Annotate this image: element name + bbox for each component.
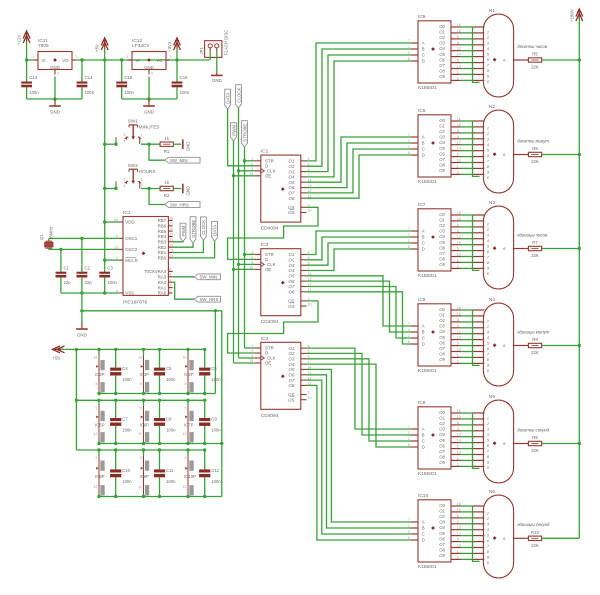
svg-text:O1: O1 — [439, 218, 445, 223]
svg-text:2: 2 — [408, 51, 410, 55]
svg-text:12: 12 — [183, 485, 187, 489]
svg-text:K155ID1: K155ID1 — [418, 471, 437, 477]
svg-text:PIC16F876: PIC16F876 — [123, 300, 148, 306]
svg-text:+12V: +12V — [17, 35, 22, 45]
svg-text:STROBE: STROBE — [191, 220, 196, 238]
svg-text:Q1: Q1 — [39, 234, 44, 240]
svg-text:OS: OS — [288, 210, 294, 215]
svg-text:B: B — [422, 330, 425, 335]
svg-text:C3: C3 — [107, 265, 113, 270]
svg-text:O2: O2 — [439, 223, 445, 228]
svg-text:VI: VI — [42, 58, 46, 63]
svg-text:2: 2 — [141, 140, 143, 144]
svg-text:OSC1: OSC1 — [125, 236, 138, 241]
svg-text:N2: N2 — [489, 104, 495, 110]
svg-text:12: 12 — [138, 432, 142, 436]
svg-text:VO: VO — [62, 58, 69, 63]
svg-text:C5: C5 — [166, 366, 172, 371]
svg-text:R5: R5 — [532, 52, 538, 57]
svg-text:N5: N5 — [489, 394, 495, 400]
svg-text:15: 15 — [249, 172, 253, 176]
svg-text:IC4: IC4 — [261, 336, 269, 342]
svg-text:A: A — [422, 427, 425, 432]
svg-text:O2: O2 — [289, 164, 295, 169]
svg-text:O5: O5 — [289, 367, 295, 372]
svg-text:8: 8 — [185, 382, 187, 386]
svg-text:O0: O0 — [439, 503, 445, 508]
svg-text:RB1: RB1 — [158, 250, 167, 255]
svg-text:O5: O5 — [289, 274, 295, 279]
svg-text:C13: C13 — [29, 75, 37, 80]
svg-text:7: 7 — [408, 322, 410, 326]
svg-text:C9: C9 — [211, 417, 217, 422]
svg-text:C15: C15 — [124, 75, 132, 80]
svg-text:IC1: IC1 — [123, 210, 131, 216]
svg-text:N6: N6 — [489, 489, 495, 495]
svg-text:O9: O9 — [439, 357, 445, 362]
svg-text:RB6: RB6 — [158, 224, 167, 229]
svg-text:O8: O8 — [439, 69, 445, 74]
svg-text:CLOCK: CLOCK — [201, 220, 206, 235]
svg-text:O4: O4 — [289, 362, 295, 367]
svg-text:1: 1 — [487, 126, 489, 131]
svg-text:единицы секунд: единицы секунд — [517, 522, 550, 527]
svg-text:IC3: IC3 — [261, 242, 269, 248]
svg-text:O6: O6 — [439, 443, 445, 448]
svg-text:O2: O2 — [439, 35, 445, 40]
svg-text:DATA: DATA — [212, 225, 217, 236]
svg-text:1: 1 — [408, 524, 410, 528]
svg-text:RB4: RB4 — [158, 234, 167, 239]
svg-text:N1: N1 — [489, 8, 495, 14]
svg-text:K155ID1: K155ID1 — [418, 179, 437, 185]
svg-text:O1: O1 — [289, 159, 295, 164]
svg-text:O0: O0 — [439, 212, 445, 217]
svg-text:N3: N3 — [489, 200, 495, 206]
svg-text:VDD: VDD — [125, 220, 134, 225]
svg-text:O6: O6 — [439, 536, 445, 541]
svg-text:O7: O7 — [289, 284, 295, 289]
svg-text:1: 1 — [408, 328, 410, 332]
svg-text:3: 3 — [251, 167, 253, 171]
svg-text:RA3: RA3 — [158, 275, 167, 280]
svg-text:22K: 22K — [531, 253, 539, 258]
svg-text:IC3P: IC3P — [140, 372, 150, 377]
svg-text:1: 1 — [251, 344, 253, 348]
svg-text:RB5: RB5 — [158, 229, 167, 234]
svg-text:1: 1 — [487, 222, 489, 227]
svg-text:6: 6 — [408, 443, 410, 447]
svg-text:100n: 100n — [211, 479, 221, 484]
svg-text:7: 7 — [408, 227, 410, 231]
svg-text:1k: 1k — [164, 180, 169, 185]
svg-text:VI: VI — [136, 58, 140, 63]
svg-text:D: D — [422, 247, 425, 252]
svg-text:LF33CV: LF33CV — [132, 43, 150, 49]
svg-text:100n: 100n — [124, 90, 134, 95]
svg-text:O5: O5 — [439, 52, 445, 57]
svg-text:O8: O8 — [439, 455, 445, 460]
svg-text:O4: O4 — [439, 234, 445, 239]
svg-text:PWM: PWM — [231, 125, 236, 136]
svg-text:100n: 100n — [122, 377, 132, 382]
svg-text:O2: O2 — [439, 318, 445, 323]
svg-text:IC5: IC5 — [418, 14, 426, 20]
svg-text:VSS: VSS — [125, 291, 134, 296]
svg-text:O6: O6 — [439, 151, 445, 156]
svg-text:5: 5 — [96, 456, 98, 460]
svg-text:O3: O3 — [289, 263, 295, 268]
svg-text:9: 9 — [308, 391, 310, 395]
svg-text:2: 2 — [141, 184, 143, 188]
svg-text:2: 2 — [251, 162, 253, 166]
svg-text:IC8: IC8 — [418, 297, 426, 303]
svg-text:OS: OS — [288, 304, 294, 309]
svg-text:O5: O5 — [439, 335, 445, 340]
svg-text:100n: 100n — [211, 377, 221, 382]
svg-text:O6: O6 — [289, 279, 295, 284]
svg-text:GND: GND — [77, 332, 87, 337]
svg-text:O7: O7 — [439, 63, 445, 68]
svg-text:O7: O7 — [439, 542, 445, 547]
svg-text:6: 6 — [408, 536, 410, 540]
svg-text:O3: O3 — [289, 357, 295, 362]
svg-text:5: 5 — [96, 407, 98, 411]
svg-text:MCLR: MCLR — [125, 258, 137, 263]
svg-text:O2: O2 — [439, 129, 445, 134]
svg-text:RA1: RA1 — [158, 285, 167, 290]
svg-text:2: 2 — [408, 530, 410, 534]
svg-text:8: 8 — [96, 382, 98, 386]
svg-text:RB0: RB0 — [158, 256, 167, 261]
svg-text:O2: O2 — [439, 514, 445, 519]
svg-text:4: 4 — [124, 140, 126, 144]
svg-text:C: C — [422, 532, 425, 537]
svg-text:3: 3 — [169, 284, 171, 288]
svg-text:O7: O7 — [439, 251, 445, 256]
svg-text:CD4094: CD4094 — [261, 413, 279, 419]
svg-text:O1: O1 — [439, 509, 445, 514]
svg-text:C: C — [422, 439, 425, 444]
svg-text:C11: C11 — [166, 468, 174, 473]
svg-text:O1: O1 — [439, 30, 445, 35]
svg-text:O7: O7 — [289, 191, 295, 196]
svg-text:O1: O1 — [439, 124, 445, 129]
svg-text:+180V: +180V — [570, 9, 575, 22]
svg-text:27: 27 — [169, 222, 173, 226]
svg-text:4: 4 — [169, 278, 171, 282]
svg-text:3: 3 — [251, 354, 253, 358]
svg-text:12: 12 — [183, 432, 187, 436]
svg-text:O5: O5 — [439, 240, 445, 245]
svg-text:A: A — [422, 324, 425, 329]
svg-text:5: 5 — [140, 456, 142, 460]
svg-text:O4: O4 — [439, 525, 445, 530]
svg-text:IC6: IC6 — [418, 108, 426, 114]
svg-text:1k: 1k — [164, 136, 169, 141]
svg-text:O3: O3 — [439, 41, 445, 46]
svg-text:GND: GND — [212, 78, 222, 83]
svg-text:O8: O8 — [439, 257, 445, 262]
svg-text:IC5P: IC5P — [95, 422, 105, 427]
svg-text:3: 3 — [251, 261, 253, 265]
svg-text:16: 16 — [183, 356, 187, 360]
svg-text:O5: O5 — [439, 531, 445, 536]
svg-text:3: 3 — [124, 133, 126, 137]
svg-text:7: 7 — [408, 425, 410, 429]
svg-text:PWM: PWM — [181, 225, 186, 236]
svg-text:O4: O4 — [439, 432, 445, 437]
svg-text:5: 5 — [140, 407, 142, 411]
svg-text:RB7: RB7 — [158, 218, 167, 223]
svg-text:2: 2 — [57, 72, 59, 76]
svg-text:RA0: RA0 — [158, 291, 167, 296]
svg-text:100n: 100n — [122, 428, 132, 433]
svg-text:2: 2 — [408, 145, 410, 149]
svg-text:единицы часов: единицы часов — [517, 232, 548, 237]
svg-text:HOURS: HOURS — [139, 169, 156, 174]
svg-text:1: 1 — [141, 177, 143, 181]
svg-text:STROBE: STROBE — [242, 124, 247, 142]
svg-text:15: 15 — [249, 266, 253, 270]
svg-text:O8: O8 — [439, 548, 445, 553]
svg-text:1: 1 — [408, 431, 410, 435]
svg-text:IC9: IC9 — [418, 400, 426, 406]
svg-text:IC7: IC7 — [418, 202, 426, 208]
svg-text:VO: VO — [156, 58, 163, 63]
svg-text:D: D — [422, 153, 425, 158]
svg-text:O4: O4 — [289, 175, 295, 180]
svg-text:O2: O2 — [439, 421, 445, 426]
svg-text:2: 2 — [151, 72, 153, 76]
svg-text:7: 7 — [408, 518, 410, 522]
svg-text:K155ID1: K155ID1 — [418, 368, 437, 374]
svg-text:A: A — [422, 520, 425, 525]
svg-text:2: 2 — [408, 437, 410, 441]
svg-text:O2: O2 — [289, 258, 295, 263]
svg-text:C12: C12 — [211, 468, 219, 473]
svg-text:GND: GND — [144, 109, 154, 114]
svg-text:O3: O3 — [439, 229, 445, 234]
svg-text:+5V: +5V — [53, 356, 61, 361]
svg-text:C6: C6 — [211, 366, 217, 371]
svg-text:R6: R6 — [532, 146, 538, 151]
svg-text:O4: O4 — [439, 329, 445, 334]
svg-text:CD4094: CD4094 — [261, 226, 279, 232]
svg-text:7805: 7805 — [38, 43, 49, 49]
svg-text:O9: O9 — [439, 262, 445, 267]
svg-text:O0: O0 — [439, 410, 445, 415]
svg-text:R1: R1 — [164, 149, 170, 154]
svg-text:SW_MIN: SW_MIN — [170, 158, 188, 163]
svg-text:C: C — [422, 241, 425, 246]
svg-text:O7: O7 — [439, 157, 445, 162]
svg-text:1: 1 — [408, 233, 410, 237]
svg-text:100n: 100n — [107, 280, 117, 285]
svg-text:GND: GND — [144, 65, 154, 70]
svg-text:O6: O6 — [439, 245, 445, 250]
svg-text:1: 1 — [408, 139, 410, 143]
svg-text:B: B — [422, 526, 425, 531]
svg-text:IC2: IC2 — [261, 149, 269, 155]
svg-text:десятки часов: десятки часов — [517, 44, 548, 49]
svg-text:D: D — [422, 59, 425, 64]
svg-text:K155ID1: K155ID1 — [418, 564, 437, 570]
svg-text:O6: O6 — [439, 57, 445, 62]
svg-text:O9: O9 — [439, 168, 445, 173]
svg-text:SW2: SW2 — [128, 163, 138, 168]
svg-text:1: 1 — [251, 157, 253, 161]
svg-text:O7: O7 — [439, 346, 445, 351]
svg-text:GND: GND — [185, 142, 190, 152]
svg-text:RA2: RA2 — [158, 280, 167, 285]
svg-text:B: B — [422, 433, 425, 438]
svg-text:C: C — [422, 336, 425, 341]
svg-text:1: 1 — [251, 251, 253, 255]
svg-text:100n: 100n — [122, 479, 132, 484]
svg-text:3: 3 — [170, 55, 172, 59]
svg-text:22p: 22p — [85, 280, 93, 285]
svg-text:RB2: RB2 — [158, 245, 167, 250]
svg-text:C7: C7 — [122, 417, 128, 422]
svg-text:OE: OE — [265, 174, 271, 179]
svg-text:O6: O6 — [439, 340, 445, 345]
svg-text:SW_HRS: SW_HRS — [200, 297, 219, 302]
svg-text:R10: R10 — [531, 530, 540, 535]
svg-text:IC4P: IC4P — [184, 372, 194, 377]
svg-text:GND: GND — [50, 65, 60, 70]
svg-text:D: D — [422, 445, 425, 450]
svg-text:R8: R8 — [532, 337, 538, 342]
svg-text:O8: O8 — [289, 290, 295, 295]
svg-text:C14: C14 — [85, 75, 93, 80]
svg-text:10: 10 — [308, 302, 312, 306]
svg-text:100n: 100n — [166, 377, 176, 382]
svg-text:O1: O1 — [439, 416, 445, 421]
svg-text:O1: O1 — [439, 313, 445, 318]
svg-text:O8: O8 — [289, 383, 295, 388]
svg-text:K155ID1: K155ID1 — [418, 273, 437, 279]
svg-text:RB3: RB3 — [158, 240, 167, 245]
svg-text:22K: 22K — [531, 448, 539, 453]
svg-text:16: 16 — [138, 356, 142, 360]
svg-text:O9: O9 — [439, 460, 445, 465]
svg-text:100n: 100n — [180, 90, 190, 95]
svg-text:O0: O0 — [439, 307, 445, 312]
svg-text:3: 3 — [76, 55, 78, 59]
svg-text:1: 1 — [487, 30, 489, 35]
svg-text:6: 6 — [408, 245, 410, 249]
svg-text:O0: O0 — [439, 118, 445, 123]
svg-text:1: 1 — [487, 319, 489, 324]
svg-text:6: 6 — [408, 57, 410, 61]
svg-text:22K: 22K — [531, 543, 539, 548]
svg-text:2: 2 — [408, 334, 410, 338]
svg-text:+3V3: +3V3 — [167, 41, 172, 52]
svg-text:O6: O6 — [289, 185, 295, 190]
svg-text:O9: O9 — [439, 74, 445, 79]
svg-text:O8: O8 — [439, 352, 445, 357]
svg-text:C10: C10 — [122, 468, 130, 473]
svg-text:26: 26 — [169, 227, 173, 231]
svg-text:3: 3 — [124, 177, 126, 181]
svg-text:K155ID1: K155ID1 — [418, 85, 437, 91]
svg-text:4: 4 — [124, 184, 126, 188]
svg-text:5: 5 — [185, 456, 187, 460]
svg-text:T0CKI/RA4: T0CKI/RA4 — [144, 269, 167, 274]
svg-text:1: 1 — [33, 55, 35, 59]
svg-text:100n: 100n — [166, 479, 176, 484]
svg-text:SW_HRS: SW_HRS — [170, 202, 189, 207]
svg-text:B: B — [422, 235, 425, 240]
svg-text:100n: 100n — [85, 90, 95, 95]
svg-text:GND: GND — [50, 109, 60, 114]
svg-text:22K: 22K — [531, 159, 539, 164]
svg-text:IC2P: IC2P — [95, 372, 105, 377]
svg-text:5: 5 — [185, 407, 187, 411]
svg-text:7: 7 — [408, 133, 410, 137]
svg-text:C: C — [422, 53, 425, 58]
svg-text:IC10: IC10 — [418, 493, 428, 499]
svg-text:B: B — [422, 47, 425, 52]
svg-text:IC10P: IC10P — [184, 474, 196, 479]
svg-text:O3: O3 — [439, 135, 445, 140]
svg-text:1: 1 — [487, 416, 489, 421]
svg-text:A: A — [422, 41, 425, 46]
svg-text:десятки секунд: десятки секунд — [517, 427, 549, 432]
svg-text:1: 1 — [408, 45, 410, 49]
svg-text:SW1: SW1 — [128, 119, 138, 124]
svg-text:IC9P: IC9P — [140, 474, 150, 479]
svg-text:100n: 100n — [166, 428, 176, 433]
svg-text:C1: C1 — [64, 265, 70, 270]
svg-text:1: 1 — [127, 55, 129, 59]
svg-text:O7: O7 — [289, 378, 295, 383]
svg-text:1: 1 — [487, 511, 489, 516]
svg-text:O5: O5 — [439, 438, 445, 443]
svg-text:O8: O8 — [439, 163, 445, 168]
svg-text:JP1: JP1 — [199, 47, 204, 55]
svg-text:DATA: DATA — [225, 93, 230, 104]
svg-text:CD4094: CD4094 — [261, 319, 279, 325]
svg-text:R9: R9 — [532, 435, 538, 440]
svg-text:R7: R7 — [532, 240, 538, 245]
svg-text:C2: C2 — [85, 265, 91, 270]
svg-text:15: 15 — [249, 359, 253, 363]
svg-text:O0: O0 — [439, 24, 445, 29]
svg-text:единицы минут: единицы минут — [517, 329, 550, 334]
svg-text:D: D — [422, 538, 425, 543]
svg-text:2: 2 — [408, 239, 410, 243]
svg-text:IC8P: IC8P — [95, 474, 105, 479]
svg-text:10: 10 — [308, 209, 312, 213]
svg-text:O3: O3 — [439, 427, 445, 432]
svg-text:5: 5 — [169, 273, 171, 277]
svg-text:8: 8 — [140, 382, 142, 386]
svg-text:22K: 22K — [531, 350, 539, 355]
svg-text:6: 6 — [169, 268, 171, 272]
svg-text:O7: O7 — [439, 449, 445, 454]
svg-text:N4: N4 — [489, 297, 495, 303]
svg-text:C: C — [422, 147, 425, 152]
svg-text:2: 2 — [169, 289, 171, 293]
svg-text:C8: C8 — [166, 417, 172, 422]
svg-text:6: 6 — [408, 151, 410, 155]
svg-text:O8: O8 — [289, 196, 295, 201]
svg-text:OSC2: OSC2 — [125, 247, 138, 252]
svg-text:D: D — [422, 342, 425, 347]
svg-text:O1: O1 — [289, 346, 295, 351]
